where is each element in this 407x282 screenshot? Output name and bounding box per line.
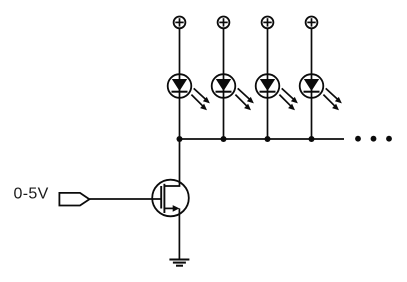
ground [169,260,189,266]
gate wire [89,198,161,200]
LED D3 [256,74,280,98]
power supply V4 (+) [306,17,318,29]
junction node D4 on bus [309,136,315,142]
svg-text:0-5V: 0-5V [14,186,49,203]
Q1 body circle [152,180,189,217]
branch D1 [168,17,210,143]
power supply V2 (+) [218,17,230,29]
LED D4 [300,74,324,98]
LED D4 light arrow 2 [323,95,339,111]
LED D1 [168,74,192,98]
source wire to ground [178,208,180,259]
ellipsis: more LED branches [355,136,392,142]
junction node D2 on bus [221,136,227,142]
LED D1 light arrow 2 [191,95,207,111]
wire supply to bus through LED D3 [267,28,269,139]
power supply V1 (+) [174,17,186,29]
branch D3 [256,17,298,143]
branch D2 [212,17,254,143]
wire supply to bus through LED D2 [223,28,225,139]
Q1 channel bar [163,184,165,213]
wire supply to bus through LED D1 [179,28,181,139]
wire supply to bus through LED D4 [311,28,313,139]
input flag 0-5V [59,193,89,206]
transistor Q1 (MOSFET) [152,139,189,216]
junction node D1 on bus [177,136,183,142]
LED D3 light arrow 1 [282,88,298,103]
Q1 source stub with arrow [164,207,174,209]
branch D4 [300,17,342,143]
LED D3 light arrow 2 [279,95,295,111]
LED D2 [212,74,236,98]
junction node D3 on bus [265,136,271,142]
power supply V3 (+) [262,17,274,29]
Q1 gate bar [160,186,162,209]
bus wire (cathode rail) [180,138,345,140]
LED D4 light arrow 1 [326,88,342,103]
LED D1 light arrow 1 [194,88,210,103]
LED D2 light arrow 1 [238,88,254,103]
Q1 drain stub [164,139,179,186]
LED D2 light arrow 2 [235,95,251,111]
